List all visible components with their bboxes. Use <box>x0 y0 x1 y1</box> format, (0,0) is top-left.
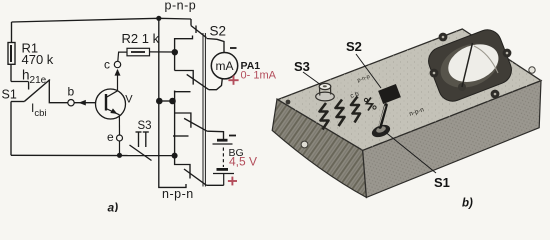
meter assembly <box>424 26 515 106</box>
toggle S1 <box>370 123 392 140</box>
wire R2 to bus <box>150 51 175 53</box>
svg-text:S3: S3 <box>138 120 152 132</box>
socket pnp contact b <box>175 71 194 85</box>
wire meter bottom <box>209 79 223 90</box>
junction bottom bus <box>172 153 178 159</box>
texts schematic <box>2 0 261 215</box>
meter PA1 <box>211 52 237 78</box>
socket block wires <box>159 18 224 187</box>
wire bus V2 upper <box>174 52 176 71</box>
minus battery <box>229 135 236 137</box>
arrow base current <box>79 100 86 106</box>
svg-text:S2: S2 <box>346 39 362 54</box>
plus battery <box>228 177 237 186</box>
wire emitter lead <box>118 115 120 135</box>
svg-text:V: V <box>125 93 133 105</box>
transistor V <box>96 89 126 119</box>
arrow collector <box>115 69 121 76</box>
wire bottom <box>11 154 175 156</box>
socket strip double line <box>202 33 204 187</box>
wire top <box>12 18 192 22</box>
svg-text:S2: S2 <box>210 24 227 39</box>
wire left bus <box>10 102 12 156</box>
wire e to bottom <box>119 141 121 155</box>
switch S2 sect2 blade <box>187 74 209 89</box>
device top face <box>278 29 541 150</box>
switch S2 sect1 blade <box>191 26 207 38</box>
wire to battery top <box>207 131 223 139</box>
node e <box>117 135 123 141</box>
screw left face <box>301 141 308 148</box>
svg-text:c: c <box>104 57 110 71</box>
texts red <box>229 69 277 168</box>
resistor R1 <box>11 22 13 43</box>
switch S2 body <box>378 84 401 104</box>
svg-text:e: e <box>107 130 114 144</box>
svg-text:0- 1mA: 0- 1mA <box>241 69 277 81</box>
wire S1 pole to node b <box>49 80 67 103</box>
socket pnp contact c <box>175 91 191 92</box>
junction emitter bottom <box>117 153 122 158</box>
switch S2 sect1 post <box>195 26 197 34</box>
knob S3 <box>316 83 335 101</box>
svg-text:b: b <box>68 84 75 98</box>
socket npn contact b <box>173 135 189 137</box>
svg-text:470 k: 470 k <box>22 52 54 67</box>
socket pnp contact e <box>175 36 193 53</box>
label S2 leader <box>356 54 381 88</box>
svg-text:S3: S3 <box>294 59 310 74</box>
wire bus V1 <box>158 18 160 155</box>
sockets pins <box>320 97 361 130</box>
wire node b to base <box>74 102 96 104</box>
svg-text:S1: S1 <box>434 175 450 190</box>
switch S1 lower stub <box>11 101 25 103</box>
svg-text:h21e: h21e <box>22 68 47 87</box>
svg-text:4,5 V: 4,5 V <box>229 155 257 169</box>
switch S2 sect3 blade <box>184 118 207 131</box>
wire S2 to meter top <box>207 39 225 53</box>
svg-text:mA: mA <box>216 59 234 73</box>
svg-text:b): b) <box>462 198 473 210</box>
junction connector left <box>156 98 163 105</box>
screw top right <box>529 67 535 73</box>
svg-text:p-n-p: p-n-p <box>165 0 197 12</box>
plus meter <box>228 76 238 85</box>
pushbutton S3 <box>130 132 152 161</box>
wire to battery bottom <box>207 184 224 186</box>
wire c to R2 <box>118 52 127 61</box>
wire connector <box>159 100 173 102</box>
switch S2 sect1 elbow <box>190 19 192 26</box>
wire npn rail <box>159 155 186 187</box>
labels pictorial <box>294 39 450 190</box>
device front face <box>363 81 541 198</box>
node b <box>68 100 74 106</box>
label S3 leader <box>303 72 321 85</box>
junction top wire <box>156 16 161 21</box>
junction R2 bus <box>172 49 178 55</box>
svg-text:R2 1 k: R2 1 k <box>122 31 160 46</box>
switch S1 blade <box>25 80 51 102</box>
resistor R2 <box>127 48 150 56</box>
svg-text:n-p-n: n-p-n <box>162 187 194 201</box>
wire below bottom dot <box>175 156 190 179</box>
wire collector lead <box>117 70 119 91</box>
socket npn contact e <box>175 113 191 128</box>
pin holes <box>364 98 367 101</box>
switch S2 sect4 blade <box>184 169 207 185</box>
switch S1 upper contact tick <box>28 82 30 90</box>
junction dots <box>117 16 178 159</box>
junction connector right <box>169 98 176 105</box>
svg-text:Icbi: Icbi <box>31 101 47 119</box>
wire bus V2 lower <box>174 91 176 156</box>
battery BG <box>213 140 235 185</box>
minus meter <box>230 47 237 49</box>
screw corner <box>286 100 291 105</box>
svg-text:a): a) <box>108 201 119 213</box>
label S1 leader <box>384 131 436 173</box>
node c <box>114 61 120 67</box>
svg-text:S1: S1 <box>2 88 17 102</box>
device left face <box>272 99 366 197</box>
